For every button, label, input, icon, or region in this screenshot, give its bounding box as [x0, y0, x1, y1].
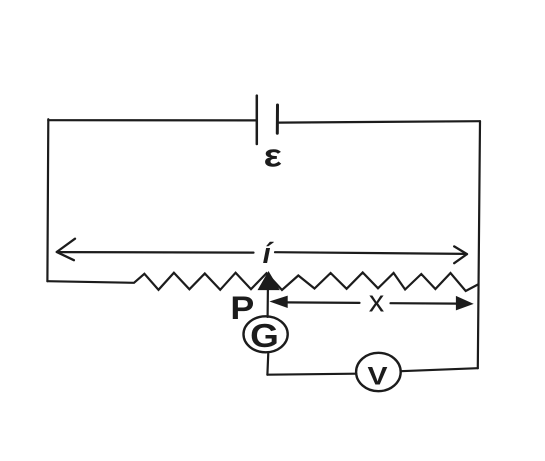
jockey slider P triangle — [259, 273, 279, 290]
battery cell E long plate — [256, 96, 259, 144]
wire left vertical — [46, 119, 49, 281]
wire bottom horizontal V to right — [401, 368, 478, 371]
arrow x left head — [271, 296, 287, 307]
resistor potentiometer wire AB — [47, 273, 478, 292]
arrow x shaft left — [286, 301, 360, 304]
svg-text:í: í — [263, 238, 275, 270]
voltmeter V circle — [356, 353, 401, 391]
wire bottom horizontal G to V — [267, 374, 356, 375]
wire galvanometer to bottom — [266, 352, 269, 374]
arrow x right head — [456, 297, 472, 310]
arrow length l right head — [454, 246, 467, 263]
arrow length l left head — [57, 239, 75, 261]
wire top-left horizontal — [48, 119, 256, 121]
wire slider P to galvanometer — [267, 289, 269, 317]
svg-text:V: V — [367, 362, 388, 390]
arrow length l shaft left — [58, 251, 254, 254]
svg-text:G: G — [250, 318, 279, 355]
arrow x shaft right — [391, 302, 459, 305]
galvanometer G circle — [244, 316, 288, 352]
arrow length l shaft right — [275, 252, 466, 254]
svg-text:x: x — [369, 284, 385, 319]
battery cell E short plate — [276, 105, 279, 133]
svg-text:ε: ε — [264, 139, 282, 174]
wire right vertical — [478, 121, 480, 368]
wire top-right horizontal — [279, 121, 480, 122]
